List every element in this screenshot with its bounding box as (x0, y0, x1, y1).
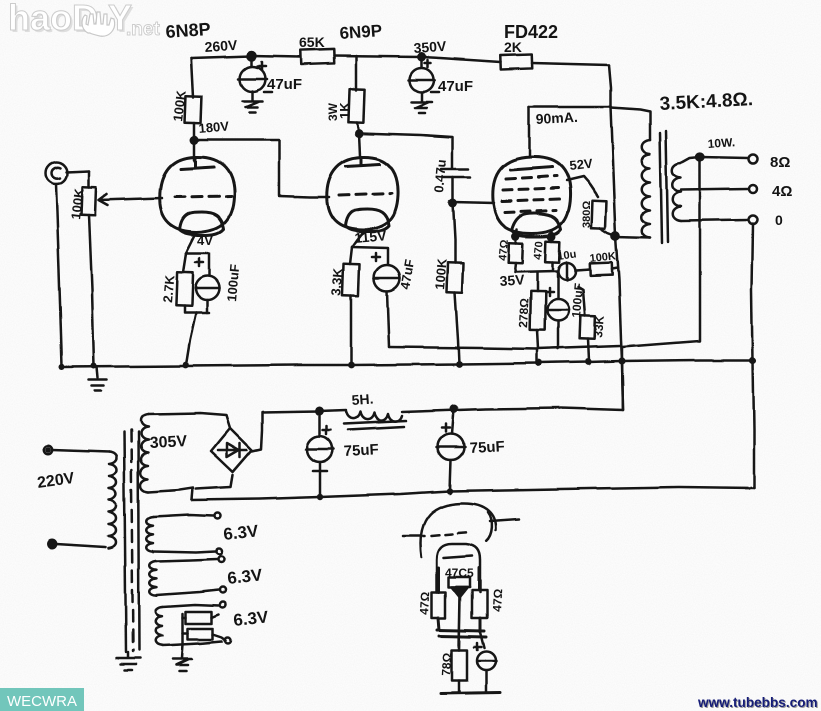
node 75uF#2 top (451, 406, 457, 412)
svg-text:0.47u: 0.47u (431, 159, 449, 193)
wire FD422 cathode pin 2 (551, 230, 554, 241)
svg-text:4V: 4V (197, 233, 213, 248)
svg-text:47C5: 47C5 (445, 566, 474, 580)
resistor 3.3K (V2 cathode, vertical) (342, 247, 359, 365)
logo haoDIY.net (embossed white) (8, 0, 160, 40)
svg-text:470: 470 (532, 241, 546, 260)
svg-text:www.tubebbs.com: www.tubebbs.com (697, 695, 818, 710)
wire FD422 cathode pin 1 (516, 229, 517, 243)
triangle marker under 47C5 (452, 587, 468, 597)
terminal 4 ohm (749, 185, 757, 193)
choke core lines (344, 421, 406, 430)
svg-text:6.3V: 6.3V (222, 521, 259, 544)
transformer OPT secondary coil (673, 163, 681, 221)
svg-text:47uF: 47uF (267, 76, 302, 93)
svg-text:8Ω: 8Ω (770, 154, 790, 171)
svg-text:0: 0 (775, 212, 783, 228)
capacitor 10u (inline on cathode bus) (559, 262, 591, 280)
wiper arrow of 100K pot (99, 194, 162, 205)
wire HV top to bridge (148, 413, 230, 428)
svg-text:47Ω: 47Ω (490, 588, 505, 612)
svg-text:33K: 33K (591, 315, 607, 338)
svg-text:180V: 180V (198, 118, 230, 136)
wire V2 cathode (352, 231, 364, 247)
resistor (47C5 small box) (449, 577, 470, 587)
transformer PT core (124, 430, 139, 652)
resistor 47ohm (cathode left, vertical) (509, 243, 524, 272)
svg-text:65K: 65K (299, 34, 325, 50)
svg-text:260V: 260V (204, 37, 238, 55)
wire direct coupling 6N8P plate to 6N9P grid (194, 140, 329, 197)
watermark WECWRA box (0, 688, 84, 711)
capacitor C 47uF (first decoupling) (239, 56, 272, 92)
svg-text:6N9P: 6N9P (339, 21, 383, 43)
svg-text:2.7K: 2.7K (160, 274, 177, 303)
svg-text:47Ω: 47Ω (497, 239, 511, 261)
resistor 47ohm right (vertical) (472, 590, 487, 632)
PSU mains terminal upper (44, 446, 109, 454)
tube V3 FD422 beam power (493, 157, 570, 236)
svg-text:3.3K: 3.3K (328, 267, 345, 296)
ground (PT core bottom) (117, 652, 140, 670)
wire 278/100uF bottoms to bus (537, 349, 558, 363)
resistor 47ohm left (vertical) (432, 592, 446, 630)
svg-text:78Ω: 78Ω (439, 652, 454, 676)
wire anode node to OPT primary top (611, 108, 650, 140)
wire choke output to B+ vertical (402, 408, 623, 412)
node returns (317, 488, 453, 500)
wire FD422 screen lead (566, 177, 598, 197)
wire HV bottom to return (148, 488, 193, 500)
bridge rectifier (211, 428, 252, 472)
wire input jack ground drop (56, 184, 62, 366)
node 75uF#1 top (317, 408, 323, 414)
terminal 8 ohm (749, 155, 758, 164)
resistor 2.7K (V1 cathode, vertical) (175, 253, 209, 313)
svg-text:4Ω: 4Ω (772, 183, 792, 200)
wire 0 terminal down to ground bus (752, 224, 753, 360)
potentiometer 100K (volume) (82, 171, 97, 366)
tube 47C5 bottle outline (437, 544, 480, 592)
wire OPT primary bottom to node (616, 237, 650, 238)
capacitor 100uF (cathode bypass FD422) (545, 271, 569, 349)
wire NFB vertical through bus to B+ line (622, 347, 623, 410)
wire secondary top to 8ohm terminal (681, 157, 748, 163)
capacitor C 47uF (second decoupling) (408, 57, 438, 92)
node 260V (V2 plate) (356, 130, 362, 136)
choke 5H coil (346, 411, 402, 422)
wire NFB from secondary top down and left (622, 157, 700, 347)
ground symbol on bus (89, 367, 107, 391)
tube V2 6N9P triode (327, 157, 398, 232)
resistor 380ohm (screen, vertical) (592, 201, 616, 236)
svg-text:WECWRA: WECWRA (7, 693, 77, 710)
capacitor 75uF second filter (437, 409, 465, 491)
node 260V rail junction (248, 52, 256, 60)
svg-text:10W.: 10W. (707, 135, 735, 151)
wire B+ drop from 2K to main vertical (609, 65, 611, 107)
svg-text:47Ω: 47Ω (417, 591, 432, 615)
resistor humdinger R1 (horizontal) (183, 612, 219, 624)
heater winding W3 (155, 602, 226, 646)
wire B+ top rail left (6N8P plate supply) (191, 56, 300, 58)
capacitor (47C5 cathode bypass) (474, 632, 496, 692)
wire centre vertical from triangle (459, 597, 460, 650)
svg-text:52V: 52V (569, 156, 594, 173)
svg-text:47uF: 47uF (438, 78, 473, 95)
svg-text:100K: 100K (432, 257, 450, 290)
node dots on ground bus (59, 356, 757, 370)
ground (under second 47uF) (411, 92, 431, 113)
wire bridge + output up to B+ rail (252, 410, 346, 451)
wire 47C5 bottom bar (441, 693, 500, 694)
wire rail to 2K (421, 57, 501, 62)
svg-text:2K: 2K (504, 39, 522, 55)
svg-text:305V: 305V (149, 433, 188, 452)
resistor 2K (horizontal) (501, 54, 609, 69)
resistor 100K (6N8P plate load, vertical) (185, 58, 202, 160)
svg-text:6.3V: 6.3V (232, 607, 269, 630)
resistor 33K (NFB, vertical) (578, 287, 595, 361)
transformer PT primary coil (109, 452, 117, 548)
wire V1 cathode (186, 233, 196, 253)
svg-text:6.3V: 6.3V (226, 565, 263, 588)
resistor 100K (FD422 grid leak, vertical) (446, 203, 463, 364)
resistor 1K (6N9P plate dropper, vertical) (348, 56, 364, 133)
capacitor 75uF first filter (306, 411, 334, 497)
svg-text:380Ω: 380Ω (581, 201, 593, 228)
ground bus (main, bottom of amp section) (62, 360, 753, 367)
resistor 78ohm (vertical bottom) (452, 650, 467, 693)
transformer OPT core (660, 131, 668, 243)
node OPT primary bottom / screen junction (612, 232, 619, 239)
resistor humdinger R2 (horizontal) (183, 629, 231, 644)
heater winding W1 (146, 513, 222, 554)
terminal 0 (749, 216, 758, 225)
ground (under first 47uF) (243, 91, 263, 112)
svg-text:278Ω: 278Ω (516, 297, 532, 328)
ghost tube sketch (bottom, faint start) (403, 503, 519, 557)
input jack C (45, 162, 89, 184)
tube V1 6N8P triode (160, 157, 234, 235)
wire FD422 top cap anode link (529, 106, 611, 109)
wire secondary bottom to 0 terminal (681, 220, 748, 221)
resistor 470 (cathode right, vertical) (546, 241, 561, 270)
resistor 278ohm (vertical) (530, 272, 546, 349)
svg-text:35V: 35V (499, 271, 526, 289)
wire secondary mid tap to 4ohm (681, 189, 748, 190)
transformer PT HV secondary coil 305V (141, 414, 149, 492)
svg-text:5H.: 5H. (351, 391, 374, 408)
resistor 100K (horizontal, to B+ vertical) (590, 263, 618, 276)
svg-text:75uF: 75uF (343, 441, 379, 460)
wire humdinger centre to ground (182, 614, 183, 658)
wire FD422 top cap (528, 107, 531, 157)
svg-text:115V: 115V (354, 227, 388, 246)
wire FD422 cathode bus 35V (515, 271, 558, 272)
capacitor 0.47u coupling (441, 169, 470, 203)
wire ground bus right end down to PSU return (753, 360, 754, 488)
wire 47C5 right lead (478, 568, 481, 590)
wire coupling run V2 plate to 0.47u (360, 133, 452, 168)
wire V2 anode (359, 133, 360, 156)
PSU mains terminal lower (48, 540, 106, 548)
wire mid return line (cap bottoms to NFB node) (389, 346, 620, 349)
resistor 65K (horizontal, top rail) (301, 49, 421, 64)
svg-text:75uF: 75uF (469, 438, 505, 457)
node 350V junction (418, 54, 424, 60)
capacitor 47uF (V2 cathode bypass) (352, 247, 400, 347)
svg-text:350V: 350V (413, 38, 447, 56)
heater winding W2 (149, 556, 226, 596)
svg-text:.net: .net (126, 19, 160, 40)
wire 47C5 left lead (438, 568, 441, 592)
transformer OPT primary coil (642, 140, 650, 238)
node V3 grid junction (450, 200, 456, 206)
svg-text:90mA.: 90mA. (535, 109, 578, 127)
ground (humdinger) (173, 659, 192, 671)
wire B+ main vertical (611, 107, 623, 410)
wire grid lead into FD422 (453, 202, 494, 203)
node secondary top / NFB pickup (697, 154, 704, 161)
capacitor 100uF (V1 cathode bypass) (186, 253, 219, 365)
wire PSU return line (192, 487, 754, 500)
svg-text:3W: 3W (326, 102, 340, 121)
wire bridge bottom return (196, 475, 233, 489)
wire double bottom bars (438, 630, 486, 637)
node 180V plate junction (191, 137, 197, 143)
